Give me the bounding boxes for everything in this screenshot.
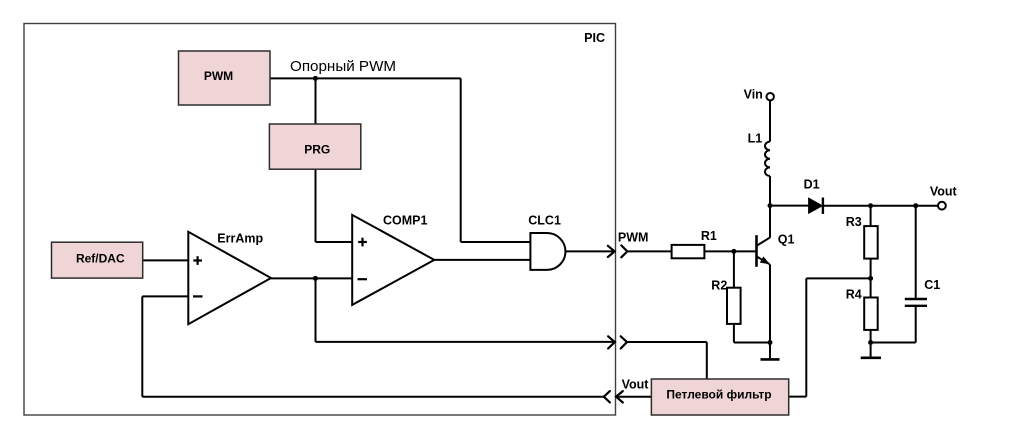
svg-text:D1: D1 <box>804 178 820 192</box>
svg-text:Vin: Vin <box>744 87 763 101</box>
svg-text:PIC: PIC <box>584 31 605 45</box>
svg-text:Vout: Vout <box>622 378 650 392</box>
svg-text:COMP1: COMP1 <box>383 214 428 228</box>
svg-text:L1: L1 <box>748 131 763 145</box>
svg-text:Опорный PWM: Опорный PWM <box>290 58 396 75</box>
svg-text:PWM: PWM <box>618 231 649 245</box>
svg-text:R3: R3 <box>846 215 862 229</box>
svg-text:Ref/DAC: Ref/DAC <box>76 252 125 266</box>
svg-text:Q1: Q1 <box>778 233 795 247</box>
svg-text:R1: R1 <box>701 229 717 243</box>
svg-text:R4: R4 <box>846 287 862 301</box>
svg-text:ErrAmp: ErrAmp <box>217 232 263 246</box>
svg-text:PWM: PWM <box>204 69 233 83</box>
svg-text:C1: C1 <box>924 278 940 292</box>
svg-text:R2: R2 <box>711 279 727 293</box>
svg-text:Vout: Vout <box>930 185 958 199</box>
svg-text:CLC1: CLC1 <box>528 214 561 228</box>
svg-text:Петлевой фильтр: Петлевой фильтр <box>666 388 771 402</box>
svg-text:PRG: PRG <box>304 143 330 157</box>
